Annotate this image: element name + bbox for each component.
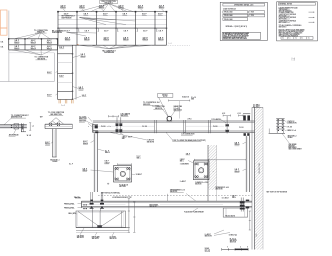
- svg-text:SEE OTHER SHEET: SEE OTHER SHEET: [289, 148, 302, 150]
- svg-text:SEE NOTE: SEE NOTE: [147, 141, 154, 143]
- svg-text:2 PLS: 2 PLS: [188, 119, 192, 121]
- svg-text:SEE NOTE: SEE NOTE: [150, 206, 157, 208]
- svg-text:RE: CONSTRUCT: RE: CONSTRUCT: [62, 16, 75, 18]
- svg-text:PL 3/8: PL 3/8: [213, 126, 218, 128]
- svg-text:1 x: 1 x: [282, 38, 284, 40]
- svg-text:S.B. P: S.B. P: [128, 137, 132, 139]
- svg-text:S.B. P: S.B. P: [104, 31, 108, 33]
- svg-text:PL 3/8: PL 3/8: [239, 127, 243, 129]
- svg-text:SEE: SEE: [191, 98, 194, 100]
- svg-text:SC 1/2: SC 1/2: [163, 96, 167, 98]
- svg-text:SEE: SEE: [122, 138, 125, 140]
- svg-text:1 TON: 1 TON: [250, 15, 254, 17]
- svg-text:HELD & DELTD: HELD & DELTD: [225, 215, 235, 217]
- svg-text:SEE NOTE: SEE NOTE: [216, 189, 223, 191]
- svg-text:2 x BOLT: 2 x BOLT: [180, 181, 186, 183]
- svg-text:1 x: 1 x: [301, 38, 303, 40]
- svg-text:PL 3/8: PL 3/8: [142, 126, 147, 128]
- svg-text:S.L. P: S.L. P: [69, 164, 73, 166]
- svg-text:RE: CONSTRUCT: RE: CONSTRUCT: [102, 50, 115, 52]
- svg-text:SECTION: SECTION: [230, 242, 236, 244]
- svg-text:1/2 BOLT: 1/2 BOLT: [136, 174, 142, 176]
- svg-text:1 CONCRETE: 1 CONCRETE: [180, 164, 189, 166]
- svg-text:1 x 1: 1 x 1: [62, 105, 65, 107]
- svg-text:SEE NOTE: SEE NOTE: [110, 238, 117, 240]
- svg-text:x 1 x: x 1 x: [108, 126, 111, 128]
- svg-text:TRI-CON: TRI-CON: [75, 198, 81, 200]
- svg-text:PL 3/8: PL 3/8: [101, 126, 106, 128]
- svg-text:1/2 = 1-0: 1/2 = 1-0: [205, 251, 211, 253]
- svg-text:SEE x: SEE x: [232, 197, 236, 199]
- svg-text:W8x10: W8x10: [105, 152, 110, 154]
- svg-text:RE: CONSTRUCT: RE: CONSTRUCT: [52, 30, 65, 32]
- svg-text:1 x 2: 1 x 2: [169, 43, 172, 45]
- svg-text:SEE NOTE: SEE NOTE: [205, 236, 212, 238]
- svg-text:SEE x: SEE x: [137, 158, 141, 160]
- svg-text:SEE NOTE: SEE NOTE: [77, 237, 84, 239]
- svg-text:S.B. P: S.B. P: [85, 31, 89, 33]
- svg-text:SEE NOTE 3: SEE NOTE 3: [104, 2, 113, 4]
- svg-text:SEE x: SEE x: [180, 160, 184, 162]
- svg-text:S.B. P: S.B. P: [159, 31, 163, 33]
- svg-text:CONNECTION: CONNECTION: [287, 122, 297, 124]
- svg-text:BELL (BTM): BELL (BTM): [69, 213, 77, 215]
- svg-text:PL 3/8: PL 3/8: [288, 127, 292, 129]
- svg-text:S.B. P: S.B. P: [124, 31, 128, 33]
- svg-text:S.B. P: S.B. P: [143, 31, 147, 33]
- svg-text:1 x 6: 1 x 6: [292, 60, 296, 62]
- svg-text:1 T: 1 T: [32, 126, 34, 128]
- svg-text:1 x: 1 x: [289, 38, 291, 40]
- svg-text:SECTION: SECTION: [195, 183, 201, 185]
- svg-text:1/2 x BOLT: 1/2 x BOLT: [222, 197, 229, 199]
- svg-text:1/2 BOLT (2): 1/2 BOLT (2): [229, 235, 238, 237]
- svg-text:1 x: 1 x: [295, 38, 297, 40]
- svg-text:SECTION: SECTION: [119, 186, 125, 188]
- svg-text:1 TON: 1 TON: [250, 12, 254, 14]
- svg-text:SEE NOTE: SEE NOTE: [92, 238, 99, 240]
- svg-text:1 x: 1 x: [308, 38, 310, 40]
